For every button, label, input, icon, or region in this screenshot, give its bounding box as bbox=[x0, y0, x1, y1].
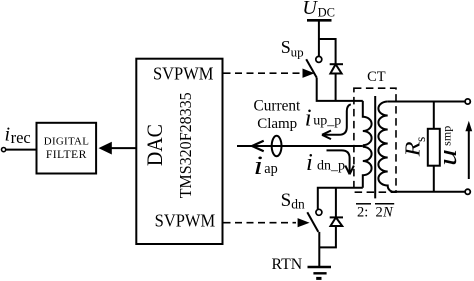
wire primary bottom bbox=[318, 188, 363, 209]
label R_s bbox=[400, 137, 428, 158]
svg-text:i: i bbox=[306, 149, 313, 176]
wire bbox=[317, 78, 363, 101]
label U_DC bbox=[302, 0, 335, 20]
resistor Rs bbox=[428, 102, 440, 192]
svg-text:s: s bbox=[413, 137, 428, 142]
digital filter block bbox=[37, 123, 97, 174]
svg-text:smp: smp bbox=[440, 126, 454, 146]
svg-text:S: S bbox=[281, 37, 291, 57]
transformer T1 primary winding bbox=[363, 101, 372, 188]
diode D_up bbox=[330, 64, 343, 101]
arrowhead i_ap bbox=[252, 141, 264, 151]
arrow u_smp bbox=[465, 121, 472, 179]
svg-text:DC: DC bbox=[318, 6, 335, 20]
label i_ap bbox=[254, 151, 278, 180]
label S_up bbox=[281, 37, 304, 60]
svg-text:2:: 2: bbox=[357, 205, 368, 221]
svg-text:ap: ap bbox=[264, 161, 277, 177]
wire bbox=[6, 149, 37, 151]
wire secondary bottom bbox=[394, 191, 468, 193]
wire center tap bbox=[237, 145, 363, 147]
svg-text:DIGITAL: DIGITAL bbox=[44, 136, 89, 148]
DSP block U1 bbox=[136, 59, 222, 244]
svg-text:U: U bbox=[302, 0, 318, 19]
svg-text:Clamp: Clamp bbox=[257, 116, 297, 132]
diode D_dn bbox=[330, 188, 343, 226]
transformer core bbox=[374, 96, 376, 198]
svg-text:u: u bbox=[433, 149, 462, 166]
wire bbox=[318, 20, 320, 56]
svg-text:2: 2 bbox=[376, 205, 383, 221]
wire secondary top bbox=[388, 101, 468, 103]
CT dashed box bbox=[354, 88, 396, 192]
dashed gate signal bottom bbox=[224, 218, 310, 227]
annotation arrow i_dn_p bbox=[327, 150, 354, 174]
current clamp ellipse bbox=[272, 136, 282, 156]
svg-text:SVPWM: SVPWM bbox=[153, 64, 214, 84]
terminal input node bbox=[2, 148, 6, 152]
svg-text:dn_p: dn_p bbox=[317, 158, 345, 173]
transformer T1 secondary winding bbox=[378, 102, 393, 192]
svg-text:SVPWM: SVPWM bbox=[155, 210, 216, 230]
ground bbox=[308, 267, 332, 278]
switch S_up bbox=[306, 56, 322, 77]
label S_dn bbox=[281, 190, 305, 212]
wire diode branch top bbox=[319, 39, 336, 64]
overline ratio secondary bbox=[375, 203, 394, 205]
wire diode return bbox=[319, 226, 336, 247]
terminal output + bbox=[465, 99, 470, 104]
svg-text:i: i bbox=[305, 104, 312, 131]
svg-text:TMS320F28335: TMS320F28335 bbox=[176, 92, 195, 198]
svg-text:up_p: up_p bbox=[313, 114, 341, 129]
svg-text:i: i bbox=[5, 124, 11, 146]
svg-text:dn: dn bbox=[291, 197, 305, 212]
label turns ratio 2:2N bbox=[357, 205, 394, 221]
overline ratio primary bbox=[356, 203, 371, 205]
svg-text:R: R bbox=[400, 141, 424, 157]
terminal output - bbox=[465, 189, 470, 194]
svg-text:rec: rec bbox=[11, 128, 31, 147]
svg-text:Current: Current bbox=[254, 98, 301, 115]
svg-text:N: N bbox=[382, 205, 394, 221]
wire to ground bbox=[318, 232, 320, 267]
svg-text:i: i bbox=[254, 151, 264, 180]
supply rail bbox=[307, 19, 332, 22]
svg-text:CT: CT bbox=[367, 69, 386, 85]
annotation arrow i_up_p bbox=[322, 104, 351, 139]
label i_dn_p bbox=[306, 149, 345, 176]
svg-text:DAC: DAC bbox=[142, 124, 167, 166]
svg-text:up: up bbox=[291, 45, 304, 60]
wire DAC to filter with arrow bbox=[99, 142, 137, 155]
svg-text:RTN: RTN bbox=[272, 256, 303, 273]
label i_rec bbox=[5, 124, 31, 148]
label u_smp bbox=[433, 126, 462, 166]
dashed gate signal top bbox=[224, 69, 315, 78]
svg-text:S: S bbox=[281, 190, 292, 211]
svg-text:FILTER: FILTER bbox=[46, 148, 87, 161]
label i_up_p bbox=[305, 104, 342, 131]
switch S_dn bbox=[307, 209, 322, 232]
